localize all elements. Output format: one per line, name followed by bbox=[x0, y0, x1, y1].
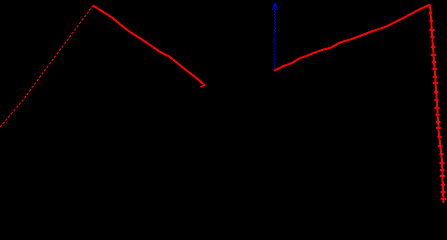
arrowhead on descending ray bbox=[200, 82, 207, 87]
dashed red ray rising to left peak bbox=[0, 6, 93, 128]
dashed blue vertical arrow shaft (braided dot pattern) bbox=[273, 10, 275, 71]
blue arrowhead bbox=[272, 3, 278, 10]
solid red ray descending from left peak bbox=[93, 6, 203, 84]
solid red ray rising to right peak bbox=[274, 5, 430, 71]
tall red line descending from right peak bbox=[430, 5, 444, 203]
burr ticks on tall red line bbox=[429, 13, 446, 199]
